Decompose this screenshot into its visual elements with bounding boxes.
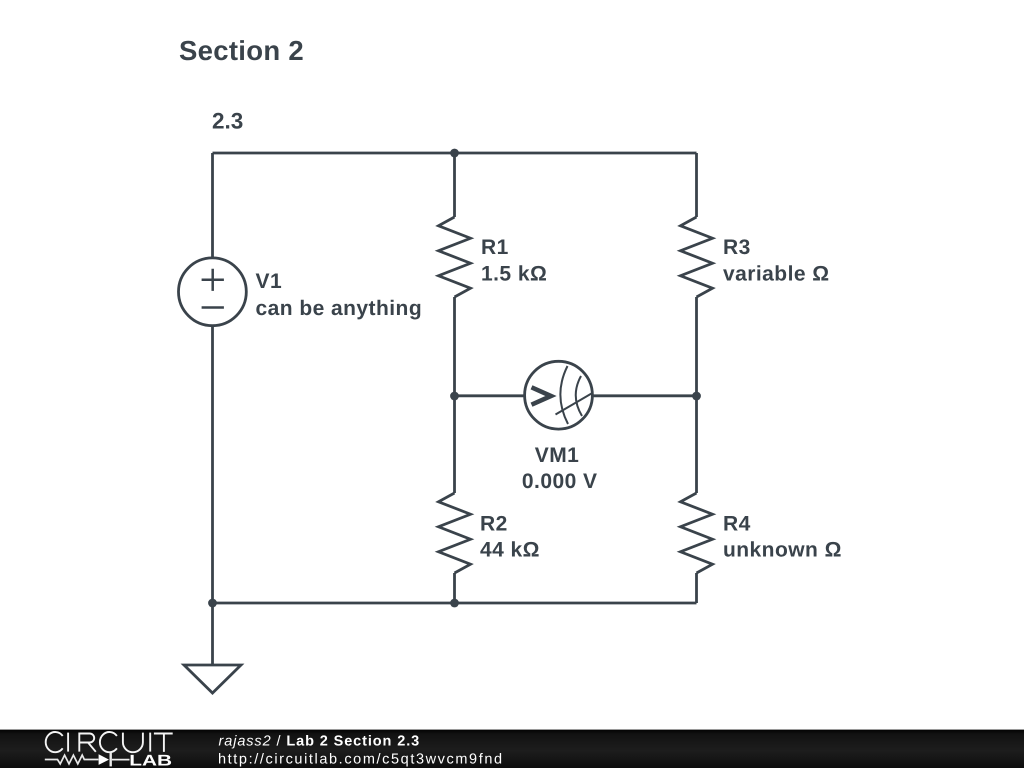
svg-text:R4: R4: [723, 512, 751, 535]
ground: [184, 665, 241, 693]
svg-text:rajass2 / Lab 2 Section 2.3: rajass2 / Lab 2 Section 2.3: [219, 734, 421, 750]
svg-text:0.000 V: 0.000 V: [522, 470, 598, 493]
svg-text:R2: R2: [480, 512, 508, 535]
wire mid rail middle: [453, 297, 456, 493]
svg-text:unknown Ω: unknown Ω: [723, 539, 842, 562]
svg-text:variable Ω: variable Ω: [723, 263, 830, 286]
logo CIRCUIT: [46, 732, 173, 752]
voltmeter VM1: [525, 361, 593, 429]
wire voltmeter right: [592, 394, 697, 397]
wire left rail lower: [211, 326, 214, 603]
resistor R4: [681, 493, 713, 573]
voltage source V1: [179, 258, 247, 326]
svg-text:LAB: LAB: [129, 752, 172, 768]
svg-text:R3: R3: [723, 236, 751, 259]
svg-text:can be anything: can be anything: [256, 297, 423, 320]
svg-text:2.3: 2.3: [212, 109, 243, 134]
svg-text:R1: R1: [481, 236, 509, 259]
logo resistor-diode wire: [45, 753, 130, 767]
wire right rail middle: [695, 297, 698, 493]
svg-text:V1: V1: [256, 270, 283, 293]
junction dot bottom left: [208, 599, 217, 608]
footer bar: [0, 730, 1024, 768]
resistor R2: [439, 493, 471, 573]
wire mid rail top: [453, 153, 456, 217]
junction dot top: [450, 149, 459, 158]
svg-text:Section 2: Section 2: [179, 35, 304, 66]
wire left rail upper: [211, 153, 214, 257]
junction dot bottom mid: [450, 599, 459, 608]
svg-text:1.5 kΩ: 1.5 kΩ: [481, 263, 547, 286]
wire right rail top: [695, 153, 698, 217]
wire right rail bottom: [695, 573, 698, 603]
wire mid rail bottom: [453, 573, 456, 603]
resistor R3: [681, 217, 713, 297]
wire ground lead: [211, 603, 214, 665]
svg-text:VM1: VM1: [535, 444, 580, 467]
svg-text:http://circuitlab.com/c5qt3wvc: http://circuitlab.com/c5qt3wvcm9fnd: [218, 751, 504, 767]
junction dot bridge left: [450, 392, 459, 401]
junction dot bridge right: [692, 392, 701, 401]
resistor R1: [439, 217, 471, 297]
wire top rail: [213, 152, 697, 155]
wire bottom rail: [213, 602, 697, 605]
svg-text:44 kΩ: 44 kΩ: [480, 539, 540, 562]
wire voltmeter left: [455, 394, 526, 397]
